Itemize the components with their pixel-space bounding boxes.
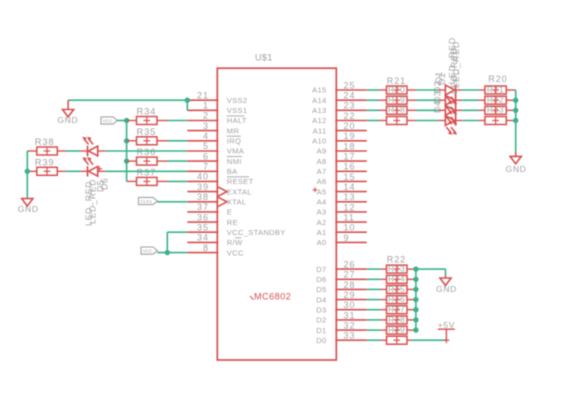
svg-text:U$1: U$1	[255, 53, 273, 63]
svg-text:R20: R20	[488, 74, 507, 84]
svg-text:1: 1	[203, 101, 209, 111]
svg-text:24: 24	[344, 91, 356, 101]
svg-text:34: 34	[197, 233, 209, 243]
svg-text:CLK1: CLK1	[140, 199, 152, 204]
svg-text:32: 32	[344, 321, 356, 331]
svg-text:R39: R39	[35, 156, 55, 167]
svg-text:33: 33	[344, 331, 356, 341]
svg-text:GND: GND	[506, 164, 527, 174]
svg-text:R22: R22	[387, 255, 406, 265]
svg-text:17: 17	[344, 152, 356, 162]
svg-text:IRQ: IRQ	[227, 137, 241, 146]
svg-text:9: 9	[344, 233, 350, 243]
svg-text:D7: D7	[316, 265, 326, 274]
svg-text:D2: D2	[316, 316, 326, 325]
svg-text:RE: RE	[227, 218, 238, 227]
svg-text:19: 19	[344, 131, 356, 141]
svg-text:31: 31	[344, 310, 356, 320]
svg-text:20: 20	[344, 121, 356, 131]
svg-text:GND: GND	[57, 115, 78, 125]
svg-text:MC6802: MC6802	[254, 292, 291, 302]
svg-text:VCC: VCC	[103, 118, 114, 123]
svg-text:13: 13	[344, 192, 356, 202]
svg-text:A7: A7	[317, 167, 327, 176]
svg-text:38: 38	[197, 192, 209, 202]
svg-text:A10: A10	[312, 137, 326, 146]
svg-text:R/W: R/W	[227, 238, 243, 247]
svg-text:A9: A9	[317, 147, 327, 156]
svg-text:R38: R38	[35, 136, 55, 147]
svg-text:+5V: +5V	[438, 320, 455, 330]
svg-text:29: 29	[344, 290, 356, 300]
svg-text:E: E	[227, 208, 232, 217]
svg-text:A5: A5	[317, 187, 327, 196]
svg-text:21: 21	[197, 90, 209, 100]
svg-text:XTAL: XTAL	[227, 198, 247, 207]
svg-text:28: 28	[344, 280, 356, 290]
svg-text:37: 37	[197, 202, 209, 212]
svg-text:EXTAL: EXTAL	[227, 187, 252, 196]
svg-text:35: 35	[197, 222, 209, 232]
svg-text:2: 2	[203, 111, 209, 121]
svg-text:D4: D4	[433, 101, 443, 113]
svg-text:25: 25	[344, 80, 356, 90]
svg-text:30: 30	[344, 300, 356, 310]
svg-text:MR: MR	[227, 126, 240, 135]
svg-text:23: 23	[344, 101, 356, 111]
svg-text:VSS2: VSS2	[227, 96, 248, 105]
svg-text:15: 15	[344, 172, 356, 182]
svg-text:VCC: VCC	[227, 248, 244, 257]
svg-text:39: 39	[197, 182, 209, 192]
svg-text:36: 36	[197, 212, 209, 222]
svg-text:16: 16	[344, 162, 356, 172]
svg-text:D3: D3	[316, 305, 326, 314]
svg-text:VSS1: VSS1	[227, 106, 248, 115]
svg-text:3: 3	[203, 121, 209, 131]
svg-text:D1: D1	[437, 73, 447, 85]
svg-text:14: 14	[344, 182, 356, 192]
svg-text:VCC: VCC	[143, 248, 154, 253]
svg-text:GND: GND	[436, 284, 457, 294]
svg-text:R35: R35	[137, 126, 157, 137]
svg-text:A6: A6	[317, 177, 327, 186]
svg-text:D6: D6	[316, 275, 326, 284]
svg-text:27: 27	[344, 270, 356, 280]
svg-text:A12: A12	[312, 116, 326, 125]
svg-text:11: 11	[344, 213, 355, 223]
svg-text:8: 8	[203, 243, 209, 253]
svg-text:A8: A8	[317, 157, 327, 166]
svg-text:A15: A15	[312, 86, 326, 95]
svg-text:VCC_STANDBY: VCC_STANDBY	[227, 228, 286, 237]
svg-text:22: 22	[344, 111, 356, 121]
svg-text:A3: A3	[317, 208, 327, 217]
svg-text:A0: A0	[317, 238, 327, 247]
svg-text:D5: D5	[316, 285, 326, 294]
svg-text:VMA: VMA	[227, 147, 245, 156]
svg-text:12: 12	[344, 202, 356, 212]
svg-text:40: 40	[197, 172, 209, 182]
svg-text:A14: A14	[312, 96, 326, 105]
svg-text:D6: D6	[100, 178, 110, 190]
svg-text:4: 4	[203, 131, 209, 141]
svg-text:A11: A11	[313, 126, 327, 135]
svg-text:6: 6	[203, 151, 209, 161]
svg-text:GND: GND	[18, 204, 39, 214]
svg-text:D0: D0	[316, 336, 326, 345]
svg-text:A1: A1	[317, 228, 327, 237]
svg-text:HALT: HALT	[227, 116, 247, 125]
svg-text:26: 26	[344, 260, 356, 270]
svg-text:NMI: NMI	[227, 157, 242, 166]
svg-text:7: 7	[203, 162, 209, 172]
svg-text:A13: A13	[312, 106, 326, 115]
svg-text:BA: BA	[227, 167, 238, 176]
svg-text:18: 18	[344, 141, 356, 151]
svg-text:5: 5	[203, 141, 209, 151]
svg-text:RESET: RESET	[227, 177, 254, 186]
svg-text:A2: A2	[317, 218, 327, 227]
svg-text:10: 10	[344, 223, 356, 233]
svg-text:R21: R21	[387, 76, 406, 86]
svg-text:D4: D4	[316, 295, 326, 304]
svg-text:R34: R34	[137, 106, 157, 117]
svg-text:LED_RED: LED_RED	[449, 47, 459, 94]
svg-text:D1: D1	[316, 326, 326, 335]
svg-text:A4: A4	[317, 198, 327, 207]
